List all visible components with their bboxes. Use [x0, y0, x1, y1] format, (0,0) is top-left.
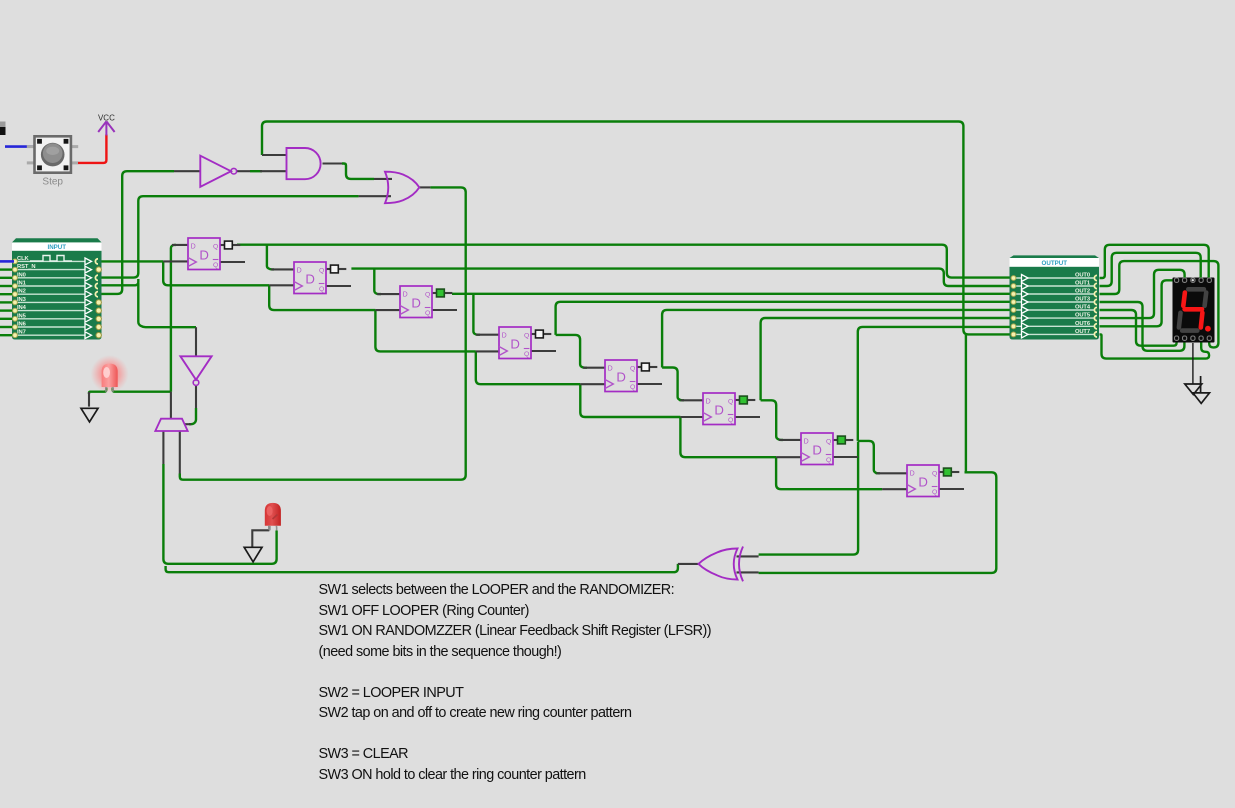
svg-text:Q: Q: [826, 457, 831, 464]
svg-text:D: D: [616, 369, 626, 384]
svg-text:Q: Q: [932, 489, 937, 496]
svg-text:Q: Q: [213, 262, 218, 269]
svg-text:INPUT: INPUT: [47, 244, 66, 251]
svg-text:RST_N: RST_N: [17, 264, 36, 270]
svg-text:D: D: [411, 295, 421, 310]
svg-text:D: D: [608, 365, 613, 372]
svg-text:OUT4: OUT4: [1075, 305, 1091, 311]
svg-text:IN7: IN7: [17, 330, 26, 336]
svg-text:D: D: [403, 291, 408, 298]
svg-text:D: D: [502, 332, 507, 339]
svg-text:Step: Step: [42, 177, 63, 188]
svg-text:Q: Q: [425, 292, 430, 299]
svg-text:Q: Q: [425, 310, 430, 317]
svg-text:VCC: VCC: [98, 113, 115, 122]
svg-text:IN6: IN6: [17, 322, 27, 328]
svg-text:IN2: IN2: [17, 289, 26, 295]
svg-text:D: D: [199, 247, 209, 262]
svg-text:OUT7: OUT7: [1075, 329, 1090, 335]
svg-text:OUT1: OUT1: [1075, 281, 1091, 287]
svg-text:IN0: IN0: [17, 272, 26, 278]
svg-text:D: D: [305, 271, 315, 286]
svg-text:Q: Q: [630, 366, 635, 373]
svg-text:D: D: [297, 267, 302, 274]
svg-text:Q: Q: [524, 333, 529, 340]
svg-text:D: D: [804, 438, 809, 445]
svg-text:D: D: [510, 336, 520, 351]
svg-text:D: D: [191, 243, 196, 250]
svg-text:IN1: IN1: [17, 281, 27, 287]
svg-text:OUT0: OUT0: [1075, 273, 1090, 279]
svg-text:OUT5: OUT5: [1075, 313, 1091, 319]
svg-text:D: D: [706, 398, 711, 405]
svg-text:Q: Q: [728, 417, 733, 424]
svg-text:D: D: [812, 442, 822, 457]
svg-text:OUT3: OUT3: [1075, 297, 1091, 303]
svg-text:D: D: [918, 474, 928, 489]
svg-text:OUT6: OUT6: [1075, 321, 1091, 327]
svg-text:D: D: [714, 402, 724, 417]
svg-text:Q: Q: [826, 439, 831, 446]
svg-text:Q: Q: [213, 244, 218, 251]
svg-text:IN3: IN3: [17, 297, 27, 303]
svg-text:Q: Q: [728, 399, 733, 406]
svg-text:CLK: CLK: [17, 256, 30, 262]
svg-text:D: D: [910, 470, 915, 477]
svg-text:Q: Q: [932, 471, 937, 478]
svg-text:OUTPUT: OUTPUT: [1042, 260, 1068, 267]
svg-text:OUT2: OUT2: [1075, 289, 1090, 295]
svg-text:IN4: IN4: [17, 305, 27, 311]
svg-text:Q: Q: [630, 384, 635, 391]
svg-text:Q: Q: [319, 268, 324, 275]
svg-text:Q: Q: [524, 351, 529, 358]
svg-text:Q: Q: [319, 286, 324, 293]
svg-text:IN5: IN5: [17, 313, 27, 319]
